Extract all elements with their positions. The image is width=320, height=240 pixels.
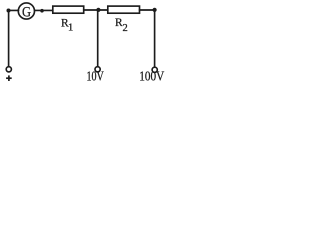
node B junction dot [96, 8, 100, 12]
svg-text:10V: 10V [87, 68, 105, 84]
svg-text:G: G [22, 3, 31, 19]
wire R2 to node C [140, 9, 155, 11]
terminal 10V open circle [95, 67, 100, 72]
wire left branch down to + terminal [8, 10, 10, 66]
terminal 100V open circle [152, 67, 157, 72]
svg-text:2: 2 [123, 23, 128, 34]
wire generator to R1 [35, 9, 53, 11]
resistor R2 body [108, 6, 140, 13]
generator G1 circle [18, 3, 34, 19]
svg-text:1: 1 [68, 22, 73, 33]
node A junction dot [7, 9, 11, 13]
wire R1 to node B [84, 9, 99, 11]
node C junction dot [153, 8, 157, 12]
label + polarity [6, 75, 12, 81]
generator terminal dot [40, 9, 44, 13]
terminal + open circle [6, 67, 11, 72]
svg-text:100V: 100V [139, 69, 164, 84]
wire middle branch node B down to 10V terminal [97, 10, 99, 67]
wire right branch node C down to 100V terminal [154, 10, 156, 67]
resistor R1 body [53, 6, 84, 13]
wire node B to R2 [98, 9, 107, 11]
wire top rail left: node A to generator [9, 9, 19, 11]
